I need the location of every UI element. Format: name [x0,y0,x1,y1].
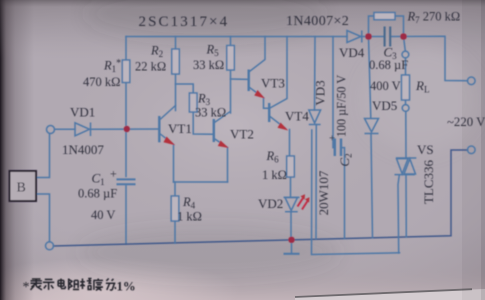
svg-text:20W107: 20W107 [316,170,331,215]
svg-text:1 kΩ: 1 kΩ [262,168,287,182]
svg-text:470 kΩ: 470 kΩ [83,75,120,89]
svg-text:VT2: VT2 [230,127,254,142]
svg-text:R7 270 kΩ: R7 270 kΩ [407,10,461,26]
svg-text:1 kΩ: 1 kΩ [177,210,202,224]
svg-text:1%: 1% [117,280,136,294]
svg-text:0.68 µF: 0.68 µF [78,187,117,201]
svg-text:VD2: VD2 [258,196,283,211]
svg-text:VS: VS [417,142,434,157]
svg-text:2SC1317×4: 2SC1317×4 [139,14,230,30]
svg-text:VD3: VD3 [313,80,328,105]
svg-text:100 µF/50 V: 100 µF/50 V [335,75,349,138]
svg-text:+: + [110,167,117,181]
svg-text:0.68 µF: 0.68 µF [369,58,408,72]
svg-text:VD1: VD1 [70,105,95,120]
svg-text:VD5: VD5 [372,98,397,113]
svg-text:VT4: VT4 [285,109,309,124]
svg-text:~220 V: ~220 V [447,115,485,129]
svg-text:B: B [17,181,26,196]
svg-text:TLC336: TLC336 [421,159,436,204]
svg-text:+: + [329,133,335,145]
svg-text:33 kΩ: 33 kΩ [195,106,226,120]
svg-text:*: * [23,280,30,295]
svg-text:VD4: VD4 [339,45,365,60]
svg-text:400 V: 400 V [370,79,401,93]
svg-text:22 kΩ: 22 kΩ [135,60,166,74]
svg-text:1N4007×2: 1N4007×2 [286,14,349,29]
svg-text:VT1: VT1 [168,121,192,136]
svg-text:VT3: VT3 [261,76,285,91]
svg-text:40 V: 40 V [91,208,115,222]
svg-text:33 kΩ: 33 kΩ [193,58,224,72]
svg-text:1N4007: 1N4007 [62,142,104,157]
